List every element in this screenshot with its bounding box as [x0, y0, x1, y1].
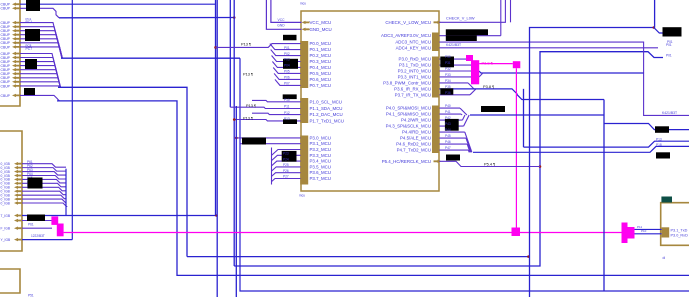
svg-text:P3.0_RxD: P3.0_RxD [671, 234, 689, 238]
vertical x=604 from 99.5 down to H291 [603, 100, 605, 292]
component U_left2 body [0, 131, 22, 251]
wire H107.2 from v236.3 into P1.1 [230, 107, 300, 108]
black net block on P4 fan [481, 106, 505, 112]
collector vertical x=66 [65, 169, 67, 216]
P3.2 jog into bus y73 [479, 71, 644, 73]
svg-text:P36: P36 [445, 91, 451, 95]
P4 lower staircase to H152.3 [465, 132, 472, 152]
MCU pin GND [302, 28, 310, 31]
svg-text:P3.1_MCU: P3.1_MCU [310, 141, 331, 146]
wire into P3.1 from v240 [240, 143, 301, 145]
svg-text:P10: P10 [284, 98, 290, 102]
svg-text:P3.1_TxD: P3.1_TxD [671, 229, 688, 233]
black net block ADC3_NTC [446, 35, 477, 41]
svg-text:P04: P04 [284, 64, 290, 68]
svg-text:P41: P41 [445, 110, 451, 114]
svg-text:P27: P27 [283, 175, 289, 179]
wire H123.5 from v604 dogleg down right edge [604, 124, 689, 130]
MCU pin CHECK [434, 21, 442, 24]
black net block P3.7 right [440, 88, 453, 94]
svg-text:P61: P61 [28, 222, 34, 226]
wire U_left1 pin y8.3 jog to bus y17.8 [20, 8, 59, 17]
svg-text:P01: P01 [284, 46, 290, 50]
wire H47.4 from v215.5 up-jog into P0.0 [216, 44, 301, 48]
bus H y=152.3 from P4 fan dogleg up to y146.4 right edge [473, 146, 689, 152]
svg-text:P30: P30 [445, 55, 451, 59]
MCU left pin band P3 [300, 136, 308, 185]
MCU U2 body [301, 11, 439, 191]
svg-text:P5.4 ¶: P5.4 ¶ [484, 161, 495, 166]
wire stub row y228.2 [22, 227, 52, 229]
svg-text:P1.7_TxD1_MCU: P1.7_TxD1_MCU [310, 118, 344, 123]
svg-text:P0.7_MCU: P0.7_MCU [310, 83, 331, 88]
svg-text:P3.7_MCU: P3.7_MCU [310, 176, 331, 181]
svg-text:P3.7_IR_TX_MCU: P3.7_IR_TX_MCU [395, 92, 431, 97]
svg-text:CHECK_V_L0W: CHECK_V_L0W [446, 15, 475, 20]
svg-text:P11: P11 [637, 225, 642, 229]
wires U_left1 group2 to bus y58.2 [20, 23, 62, 59]
svg-text:CHECK_V_LOW_MCU: CHECK_V_LOW_MCU [385, 20, 431, 25]
junction dot (653.8,27.5) [653, 26, 656, 29]
dogleg into top right black block [654, 28, 666, 34]
svg-text:CBUP: CBUP [1, 84, 11, 88]
svg-text:mcu: mcu [300, 2, 306, 6]
black net block at P1.7 [283, 119, 297, 124]
svg-text:P02: P02 [284, 52, 290, 56]
junction dot (234.2,119.5) [233, 118, 236, 121]
bus wire H y=87.3 L-shape to x187 down [58, 87, 187, 256]
black net block top right [663, 27, 682, 36]
svg-text:GND: GND [277, 24, 285, 28]
black net block U_left2 y215 [27, 215, 45, 222]
svg-text:T_IGB: T_IGB [1, 214, 11, 218]
svg-text:P4.6_RxD2_MCU: P4.6_RxD2_MCU [396, 142, 431, 147]
magenta wire blob to square [479, 63, 513, 65]
svg-text:P06: P06 [284, 76, 290, 80]
bus corner x529.5: H27.5 + vertical to bottom [530, 28, 654, 297]
svg-text:P31: P31 [445, 61, 451, 65]
svg-text:P12: P12 [284, 111, 290, 115]
black net block at P0.4 [283, 59, 298, 69]
svg-text:P13 ¶: P13 ¶ [243, 116, 253, 121]
wire into P1.2 [252, 113, 301, 114]
vertical bus x=230.3 corner into H107.2 [229, 0, 231, 107]
bus H y=115 to v604 [470, 114, 604, 116]
wires U_left1 group4 to bus y100.9 [20, 95, 59, 101]
black net block above P0.0 [283, 35, 297, 41]
vertical x=523.5 teeing on H147.1 [523, 89, 525, 147]
black net block on P3 left fan [282, 151, 297, 162]
MCU right pin band P4 [432, 106, 439, 154]
svg-text:P4.4/RD_MCU: P4.4/RD_MCU [402, 130, 431, 135]
svg-text:P34: P34 [445, 79, 451, 83]
vertical x=500.8 top to ADC3_NTC wire [500, 0, 502, 36]
vertical x=510.5 top [510, 0, 512, 22]
ADC3_NTC long wire right, down x643.6, right at y115.4 K421 net [439, 42, 689, 115]
svg-text:ADC3_NTC_MCU: ADC3_NTC_MCU [395, 40, 431, 45]
svg-text:P0.0_MCU: P0.0_MCU [310, 41, 331, 46]
black net block above P1.0 [283, 94, 297, 99]
bus wire H y=100.9 L-shape to x177 down to H276 [57, 101, 689, 276]
MCU left pin band P1 [300, 98, 308, 123]
svg-text:ADC3_AVREF3.0V_MCU: ADC3_AVREF3.0V_MCU [381, 33, 431, 38]
svg-text:P13: P13 [284, 117, 290, 121]
svg-text:P32: P32 [445, 67, 451, 71]
svg-text:P4.2/WR_MCU: P4.2/WR_MCU [401, 118, 431, 123]
svg-text:K421/B3T: K421/B3T [446, 43, 461, 47]
black net block 3 U_left1 [25, 59, 37, 69]
svg-text:P51: P51 [28, 294, 34, 297]
svg-text:P33: P33 [445, 73, 451, 77]
svg-text:P3.8 ¶: P3.8 ¶ [483, 84, 494, 89]
black net block right y152.3 [656, 152, 670, 158]
magenta junction square top [513, 61, 521, 68]
MCU right pin band P3 [432, 57, 439, 98]
svg-text:P11: P11 [284, 105, 290, 109]
wire bottom pin y239.6 to x72.3 [22, 239, 72, 241]
svg-text:F_IGB: F_IGB [1, 227, 11, 231]
junction dot (540,166.5) [539, 165, 542, 168]
svg-text:P42: P42 [445, 116, 451, 120]
MCU pin VCC [302, 21, 310, 24]
bus U net: H266 right, up x540, H51.7 right with dogleg [234, 52, 663, 266]
bus wire H y=17.8 [59, 17, 234, 19]
svg-text:P23: P23 [283, 152, 289, 156]
MCU right pin band ADC [432, 33, 439, 52]
svg-text:di: di [663, 256, 666, 260]
black net block 4 U_left1 [24, 88, 35, 95]
wire into P3.0 [234, 137, 300, 139]
magenta connector blob left [51, 216, 58, 225]
svg-text:0_IGB: 0_IGB [1, 201, 11, 205]
svg-text:P10: P10 [641, 229, 647, 233]
svg-text:P46: P46 [445, 140, 451, 144]
svg-text:P3.2_INT0_MCU: P3.2_INT0_MCU [398, 69, 431, 74]
bus wire H y=257.5 to x528.5 [187, 256, 529, 258]
wire blob to U_right pin1 [635, 228, 662, 230]
P3 right wires from MCU [439, 58, 471, 60]
black net block right y126.3 [655, 126, 669, 133]
ADC4_KEY long wire right [439, 47, 658, 49]
P5.4 wire to x541.5 [439, 161, 540, 166]
black net block ADC3_AVREF [446, 29, 488, 35]
vertical bus x=234.2 to corner y266 [233, 0, 235, 266]
vertical x=240 from 58.2 down to corner H291 [240, 58, 689, 291]
wire blob to U_right pin2 [635, 233, 662, 235]
black net block on P4.2/P4.3 [445, 119, 459, 131]
svg-text:P4.0_SPI&MOSI_MCU: P4.0_SPI&MOSI_MCU [386, 106, 431, 111]
svg-text:PC1: PC1 [26, 20, 33, 24]
P0 fan staircase rows P0.1..P0.7 [270, 44, 301, 50]
wire fan U_left2 to collector [22, 164, 66, 168]
wires U_left1 group3 to bus y87.3 [20, 54, 60, 88]
black net block over P3.0/P3.1 [242, 138, 266, 145]
U_left2 pins [14, 162, 22, 165]
component U_left1 body [0, 0, 20, 106]
CHECK_V_LOW wire to top [439, 0, 505, 22]
svg-text:P24: P24 [283, 157, 289, 161]
svg-text:P3.8_PWM_Contr_MCU: P3.8_PWM_Contr_MCU [383, 80, 431, 85]
svg-text:P01: P01 [667, 40, 673, 44]
svg-text:VCC_MCU: VCC_MCU [310, 20, 332, 25]
magenta net block small [466, 55, 473, 61]
junction dot (217.5,46.7) [214, 46, 217, 49]
bus wire H y=58.2 to corner x240 [61, 57, 240, 59]
svg-text:P4.1_SPI&MISO_MCU: P4.1_SPI&MISO_MCU [386, 112, 431, 117]
svg-text:K421/B3T: K421/B3T [662, 111, 677, 115]
wire U_left1 pin y4.2 straight to v215.5 [20, 3, 216, 5]
U_right teal cap [661, 197, 672, 203]
magenta vertical x=517.4 [515, 68, 517, 227]
svg-text:P13 ¶: P13 ¶ [241, 41, 251, 46]
junction dot (528.5,257.5) [527, 255, 530, 258]
svg-text:P35: P35 [445, 85, 451, 89]
P3.6 wire bus y88.85 stepping down to y99.5 to v604 [439, 89, 604, 100]
svg-text:P1.1_SDA_MCU: P1.1_SDA_MCU [310, 106, 343, 111]
svg-text:P07: P07 [284, 82, 290, 86]
svg-text:P0.2_MCU: P0.2_MCU [310, 53, 331, 58]
svg-text:PC7: PC7 [26, 47, 33, 51]
junction dot (234.2,17.5) [233, 16, 236, 19]
P3.7 jog up into y88.85 [470, 89, 476, 95]
VCC feed wire [271, 0, 302, 22]
svg-text:P44: P44 [445, 128, 451, 132]
bus H y=147.1 dogleg up to y141.2 right edge [524, 141, 689, 147]
P3 left fan staircase [272, 150, 301, 156]
svg-text:P3.3_INT1_MCU: P3.3_INT1_MCU [398, 74, 431, 79]
svg-text:CBUP: CBUP [1, 45, 11, 49]
magenta junction square bottom [512, 228, 521, 237]
svg-text:P3.0_MCU: P3.0_MCU [310, 135, 331, 140]
magenta bus H y=232 [64, 232, 622, 234]
P4 upper staircase to H115 [460, 108, 467, 115]
svg-text:P45: P45 [445, 134, 451, 138]
P4 right wires from MCU [439, 107, 460, 109]
junction dot (237.5,136.4) [235, 137, 238, 140]
svg-text:1222/B3T: 1222/B3T [31, 234, 45, 238]
component U_left3 body [0, 269, 20, 293]
svg-text:Y_IGB: Y_IGB [1, 238, 12, 242]
svg-text:ADC4_KEY_MCU: ADC4_KEY_MCU [396, 45, 431, 50]
svg-text:P43: P43 [445, 122, 451, 126]
svg-text:P13 ¶: P13 ¶ [243, 71, 253, 76]
svg-text:P0.6_MCU: P0.6_MCU [310, 77, 331, 82]
svg-text:P25: P25 [283, 163, 289, 167]
wire H119.5 from v233 into P1.7 [234, 120, 300, 121]
svg-text:P5.4_HC/RERCLK_MCU: P5.4_HC/RERCLK_MCU [382, 159, 431, 164]
svg-text:P3.1_TxD_MCU: P3.1_TxD_MCU [399, 63, 431, 68]
black net block 2 U_left1 [25, 29, 40, 41]
svg-text:P4.7_TxD2_MCU: P4.7_TxD2_MCU [397, 148, 431, 153]
svg-text:P01: P01 [666, 54, 672, 58]
svg-text:P0.5_MCU: P0.5_MCU [310, 71, 331, 76]
vertical bus x=236.3 from 106 to bottom [235, 106, 237, 297]
GND feed wire [266, 0, 301, 29]
svg-text:GND_MCU: GND_MCU [310, 27, 332, 32]
vertical bus x=217.2 [216, 0, 218, 297]
wire into P1.0 [252, 100, 301, 101]
ADC3_AVREF wire to v500.8 [439, 35, 500, 37]
U_right pin block [662, 227, 670, 237]
svg-text:P3.5_MCU: P3.5_MCU [310, 164, 331, 169]
svg-text:P26: P26 [283, 169, 289, 173]
MCU pin P5.4 [434, 160, 442, 163]
svg-text:P3.3_MCU: P3.3_MCU [310, 153, 331, 158]
svg-text:P13: P13 [656, 137, 662, 141]
U_left1 pins [12, 2, 20, 5]
svg-text:P3.6_IR_RX_MCU: P3.6_IR_RX_MCU [394, 86, 431, 91]
svg-text:P4.3_SPI&SCLK_MCU: P4.3_SPI&SCLK_MCU [386, 124, 431, 129]
svg-text:P03: P03 [284, 58, 290, 62]
svg-text:CBUP: CBUP [1, 94, 11, 98]
magenta net block large [471, 60, 479, 84]
P3.3 jog up into bus y73 [479, 73, 483, 77]
black net block P5.4 [446, 155, 460, 161]
junction dot (216.5,215) [215, 214, 218, 217]
MCU left pin band P0 [300, 41, 308, 88]
svg-text:P3.0_RxD_MCU: P3.0_RxD_MCU [399, 57, 431, 62]
fan collector vertical x=271.5 [271, 148, 273, 185]
magenta connector blob right [622, 223, 628, 244]
black net block 1 U_left1 [26, 0, 40, 11]
svg-text:P3.6_MCU: P3.6_MCU [310, 170, 331, 175]
svg-text:P13 ¶: P13 ¶ [246, 103, 256, 108]
svg-text:P40: P40 [445, 104, 451, 108]
vertical bus x=215.5 [215, 0, 217, 215]
svg-text:P05: P05 [284, 70, 290, 74]
svg-text:P18: P18 [656, 143, 662, 147]
svg-text:P3.2_MCU: P3.2_MCU [310, 147, 331, 152]
svg-text:P3.4_MCU: P3.4_MCU [310, 159, 331, 164]
svg-text:P0.3_MCU: P0.3_MCU [310, 59, 331, 64]
svg-text:VCC: VCC [278, 18, 286, 22]
bus wire H y=215 from U_left2 pin [22, 215, 217, 217]
svg-text:CBUP: CBUP [1, 7, 11, 11]
svg-text:P47: P47 [445, 146, 451, 150]
black net block U_left2 fan [28, 178, 43, 189]
P3.8 jog down into y88.85 [468, 83, 474, 89]
svg-text:P0.1_MCU: P0.1_MCU [310, 47, 331, 52]
vertical wire x=72.3 [71, 0, 73, 240]
vertical x=654.6 from top [654, 0, 656, 28]
black net block P3.0/P3.1 right [440, 57, 454, 68]
component U_right body [661, 203, 689, 246]
wire stub pin y220.5 [22, 220, 52, 222]
svg-text:mcu: mcu [299, 193, 305, 197]
svg-text:P1.0_SCL_MCU: P1.0_SCL_MCU [310, 99, 342, 104]
svg-text:P1.2_DAC_MCU: P1.2_DAC_MCU [310, 112, 343, 117]
svg-text:P4.5/ALE_MCU: P4.5/ALE_MCU [400, 136, 431, 141]
svg-text:P0.4_MCU: P0.4_MCU [310, 65, 331, 70]
